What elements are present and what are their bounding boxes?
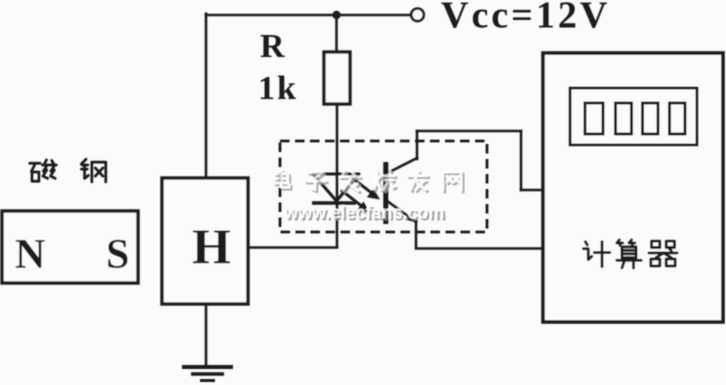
display digit 3	[643, 103, 659, 134]
wire collector diagonal	[387, 158, 418, 174]
junction dot	[332, 11, 340, 19]
wire emitter run to computer	[416, 247, 543, 250]
label computer (ji) 计	[583, 242, 609, 267]
display digit 1	[585, 103, 603, 134]
label magnet (gang) 钢	[81, 159, 105, 182]
svg-text:www.elecfans.com: www.elecfans.com	[283, 203, 444, 223]
wire top rail	[206, 14, 411, 17]
svg-text:R: R	[260, 28, 285, 65]
wire left drop to H	[205, 14, 208, 178]
label magnet (cí) 磁	[30, 160, 57, 181]
resistor R body	[324, 52, 350, 104]
magnet box	[2, 211, 138, 283]
hall sensor H block	[162, 178, 248, 304]
svg-text:Vcc=12V: Vcc=12V	[441, 0, 610, 37]
watermark url	[283, 203, 446, 225]
wire H bottom lead	[205, 304, 208, 367]
wire resistor top lead	[335, 15, 338, 52]
wire collector riser	[416, 131, 419, 159]
display digit 2	[616, 103, 632, 134]
terminal Vcc circle	[411, 9, 424, 22]
wire H to LED	[248, 246, 337, 249]
display bezel	[570, 88, 697, 145]
svg-text:N: N	[15, 232, 45, 278]
optocoupler dashed box	[280, 141, 487, 232]
svg-text:1k: 1k	[258, 70, 298, 107]
wire collector top run	[417, 130, 521, 133]
ground	[182, 367, 233, 381]
wire collector stub to computer	[521, 189, 543, 192]
phototransistor base bar	[383, 162, 388, 224]
wire emitter diagonal	[387, 201, 417, 223]
computer box	[543, 53, 723, 322]
label computer (suan) 算	[617, 240, 641, 268]
wire collector drop	[520, 131, 523, 190]
phototransistor emitter arrowhead	[406, 213, 416, 222]
label computer (qi) 器	[649, 241, 677, 266]
svg-text:H: H	[192, 218, 231, 274]
svg-text:S: S	[106, 232, 129, 278]
LED cathode bar	[312, 201, 356, 205]
wire resistor bottom lead / LED through wire	[336, 104, 339, 247]
wire emitter riser	[415, 221, 418, 248]
light arrow B	[341, 190, 367, 211]
light arrow A	[351, 177, 377, 198]
LED triangle	[313, 174, 359, 201]
display digit 4	[670, 103, 686, 134]
watermark brand glyphs	[274, 170, 463, 192]
